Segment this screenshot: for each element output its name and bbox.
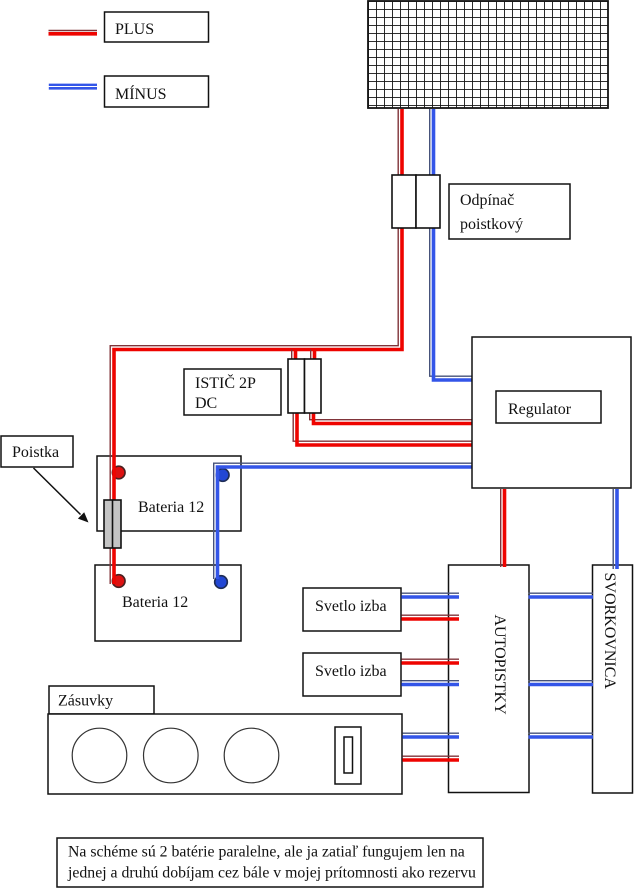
svg-text:Svetlo izba: Svetlo izba xyxy=(315,663,387,680)
svg-text:MÍNUS: MÍNUS xyxy=(115,84,167,103)
svg-text:Bateria 12: Bateria 12 xyxy=(138,499,204,516)
svg-text:Regulator: Regulator xyxy=(508,401,572,418)
svg-text:jednej a druhú dobíjam cez bál: jednej a druhú dobíjam cez bále v mojej … xyxy=(67,865,476,882)
svg-text:AUTOPISTKY: AUTOPISTKY xyxy=(491,615,508,716)
svg-text:Odpínač: Odpínač xyxy=(460,192,514,209)
svg-text:Bateria 12: Bateria 12 xyxy=(122,594,188,611)
svg-text:ISTIČ 2P: ISTIČ 2P xyxy=(195,373,256,392)
svg-text:Zásuvky: Zásuvky xyxy=(58,693,113,710)
svg-text:DC: DC xyxy=(195,395,217,412)
svg-text:Svetlo izba: Svetlo izba xyxy=(315,598,387,615)
svg-text:Na schéme sú 2 batérie paralel: Na schéme sú 2 batérie paralelne, ale ja… xyxy=(68,844,465,861)
svg-text:poistkový: poistkový xyxy=(460,216,523,233)
svg-text:SVORKOVNICA: SVORKOVNICA xyxy=(601,573,618,690)
svg-text:Poistka: Poistka xyxy=(12,444,59,461)
svg-text:PLUS: PLUS xyxy=(115,21,154,38)
